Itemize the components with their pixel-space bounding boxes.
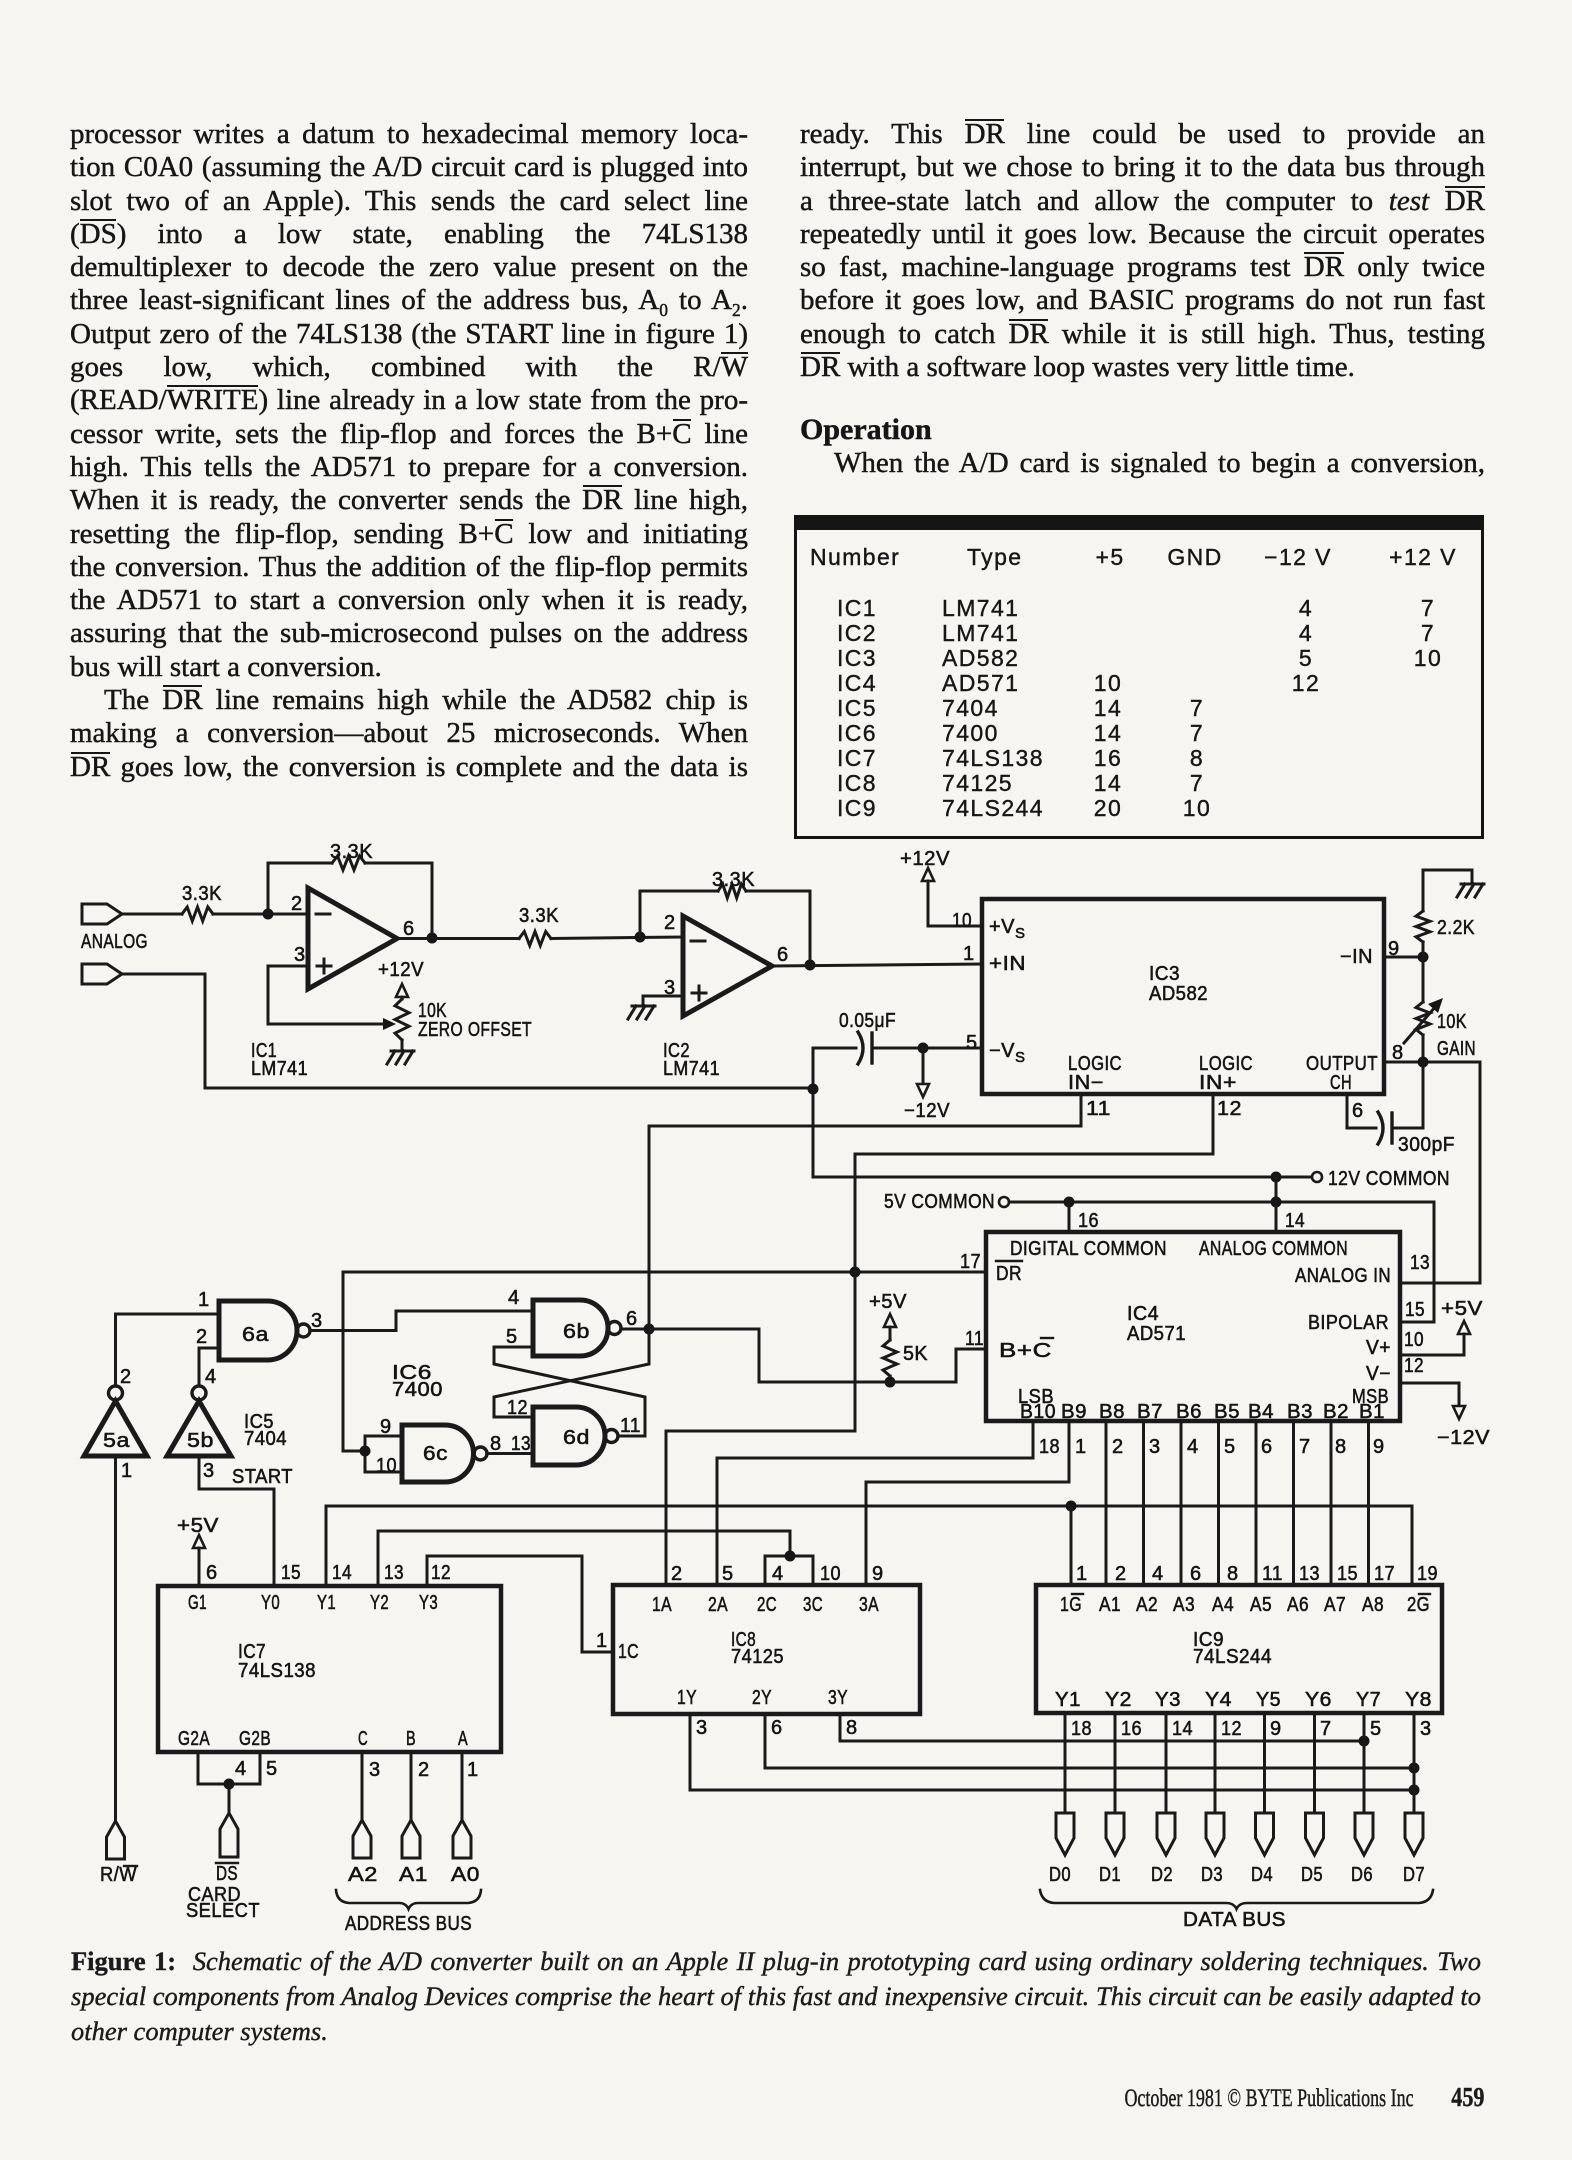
svg-text:A4: A4 xyxy=(1212,1594,1234,1616)
svg-text:Y2: Y2 xyxy=(1105,1689,1132,1711)
label ANALOG xyxy=(81,931,148,953)
connector A0 xyxy=(453,1820,471,1858)
wire ANALOG2 to common xyxy=(122,974,813,1088)
svg-text:2: 2 xyxy=(1112,1436,1124,1458)
svg-text:2.2K: 2.2K xyxy=(1437,917,1475,939)
svg-text:3: 3 xyxy=(369,1759,381,1781)
svg-text:10: 10 xyxy=(376,1455,397,1477)
svg-text:12: 12 xyxy=(1404,1355,1424,1377)
svg-text:+12V: +12V xyxy=(900,848,950,870)
svg-text:14: 14 xyxy=(1285,1210,1305,1232)
svg-text:16: 16 xyxy=(1078,1210,1099,1232)
label IC6 7400 xyxy=(392,1362,443,1401)
G2A G2B wires to DS xyxy=(198,1752,278,1813)
svg-text:B8: B8 xyxy=(1099,1401,1125,1423)
svg-text:1: 1 xyxy=(467,1759,479,1781)
svg-text:2: 2 xyxy=(291,893,303,915)
svg-text:12: 12 xyxy=(1217,1098,1242,1120)
svg-text:6a: 6a xyxy=(242,1324,269,1346)
svg-text:CH: CH xyxy=(1330,1072,1352,1094)
svg-text:AD571: AD571 xyxy=(1127,1323,1186,1345)
wire 5a out to 6a pin1 xyxy=(116,1289,220,1386)
svg-text:10K: 10K xyxy=(1437,1011,1467,1033)
svg-text:−12V: −12V xyxy=(904,1100,950,1122)
svg-text:3: 3 xyxy=(294,944,306,966)
svg-text:1A: 1A xyxy=(652,1594,672,1616)
svg-text:Y5: Y5 xyxy=(1256,1689,1281,1711)
svg-text:9: 9 xyxy=(1373,1436,1385,1458)
svg-text:300pF: 300pF xyxy=(1398,1134,1455,1156)
svg-text:9: 9 xyxy=(380,1416,392,1438)
svg-text:0.05μF: 0.05μF xyxy=(839,1010,896,1032)
svg-text:5: 5 xyxy=(1224,1436,1236,1458)
svg-text:6: 6 xyxy=(206,1562,218,1584)
svg-text:19: 19 xyxy=(1417,1563,1438,1585)
svg-text:8: 8 xyxy=(1227,1563,1239,1585)
terminal 5V COMMON xyxy=(884,1191,1009,1213)
svg-text:3Y: 3Y xyxy=(828,1687,848,1709)
svg-text:6c: 6c xyxy=(423,1443,448,1465)
wire Y2 to 74125 2C3C xyxy=(378,1531,790,1586)
svg-text:D3: D3 xyxy=(1201,1864,1223,1886)
svg-text:12V COMMON: 12V COMMON xyxy=(1328,1168,1450,1190)
svg-text:Y0: Y0 xyxy=(261,1592,280,1614)
svg-text:ANALOG: ANALOG xyxy=(81,931,148,953)
svg-text:6: 6 xyxy=(403,918,415,940)
op-amp IC2 LM741 xyxy=(663,912,789,1080)
wire C to A2 xyxy=(362,1752,381,1820)
power +12V (zero offset pot) xyxy=(378,959,424,999)
svg-text:DS: DS xyxy=(216,1863,238,1885)
inverter 5a (IC5) xyxy=(84,1366,147,1482)
svg-text:7: 7 xyxy=(1299,1436,1311,1458)
svg-text:1: 1 xyxy=(121,1460,133,1482)
svg-text:Y2: Y2 xyxy=(370,1592,389,1614)
nand 6c (IC6) xyxy=(402,1425,487,1482)
svg-text:5: 5 xyxy=(506,1326,518,1348)
wire 1G riser xyxy=(1070,1506,1073,1585)
wiper arrowhead into 10K pot xyxy=(383,1018,396,1030)
IC9 bottom pin numbers xyxy=(1071,1718,1432,1740)
svg-text:6: 6 xyxy=(626,1308,638,1330)
wire 2Y to data bus xyxy=(765,1714,1420,1774)
pin 17 DR wire to latch xyxy=(343,1251,986,1451)
svg-text:2: 2 xyxy=(418,1759,430,1781)
pin 8 OUTPUT wire junction xyxy=(1384,1042,1480,1068)
svg-text:3: 3 xyxy=(311,1310,323,1332)
wire R to IC2 pin2, junction xyxy=(551,932,683,943)
wire 12V COMMON riser xyxy=(808,1048,1312,1183)
svg-text:15: 15 xyxy=(1337,1563,1358,1585)
svg-text:3: 3 xyxy=(203,1460,215,1482)
wire feedback to IC2 output xyxy=(746,891,816,971)
svg-text:IN−: IN− xyxy=(1068,1072,1104,1094)
svg-text:B1: B1 xyxy=(1359,1401,1385,1423)
svg-text:6: 6 xyxy=(1352,1100,1364,1122)
svg-text:BIPOLAR: BIPOLAR xyxy=(1308,1312,1389,1334)
svg-text:B7: B7 xyxy=(1137,1401,1163,1423)
wire IC1 pin3 route xyxy=(268,966,384,1024)
ground (2.2K) xyxy=(1457,884,1484,897)
IC4 AD571 box xyxy=(986,1232,1400,1423)
svg-text:Y7: Y7 xyxy=(1356,1689,1381,1711)
svg-text:13: 13 xyxy=(1410,1252,1430,1274)
svg-text:G2A: G2A xyxy=(178,1728,210,1750)
DR net vertical to logic xyxy=(666,1154,855,1585)
svg-text:−VS: −VS xyxy=(989,1040,1026,1066)
svg-text:4: 4 xyxy=(772,1563,784,1585)
resistor 2.2K xyxy=(1416,911,1475,957)
potentiometer 10K GAIN xyxy=(1404,957,1476,1062)
svg-text:ANALOG IN: ANALOG IN xyxy=(1295,1265,1391,1287)
svg-text:A: A xyxy=(458,1728,468,1750)
latch cross wire 6b.out to 6d.12 xyxy=(494,1329,649,1419)
svg-text:AD582: AD582 xyxy=(1149,983,1208,1005)
svg-text:11: 11 xyxy=(965,1328,984,1350)
pin 13 ANALOG IN wire xyxy=(1400,1062,1480,1283)
IC7 74LS138 box xyxy=(158,1586,501,1752)
svg-text:Y6: Y6 xyxy=(1305,1689,1332,1711)
svg-text:1G: 1G xyxy=(1060,1594,1082,1616)
svg-text:2: 2 xyxy=(1115,1563,1127,1585)
Y output wires to D connectors xyxy=(1065,1713,1414,1813)
svg-text:A2: A2 xyxy=(348,1864,378,1886)
wire feedback riser IC1 xyxy=(268,863,332,914)
latch cross wire 6d.out to 6b.5 xyxy=(494,1326,645,1436)
IC8 74125 box xyxy=(613,1585,920,1714)
svg-text:GAIN: GAIN xyxy=(1437,1038,1476,1060)
wire 2.2K to ground xyxy=(1423,870,1472,911)
svg-text:ADDRESS BUS: ADDRESS BUS xyxy=(345,1913,472,1935)
svg-text:D5: D5 xyxy=(1301,1864,1323,1886)
svg-text:6: 6 xyxy=(1190,1563,1202,1585)
svg-text:2A: 2A xyxy=(708,1594,728,1616)
svg-text:6b: 6b xyxy=(563,1321,590,1343)
nand 6b (IC6) xyxy=(533,1300,621,1356)
svg-text:8: 8 xyxy=(1335,1436,1347,1458)
svg-text:11: 11 xyxy=(1086,1098,1111,1120)
svg-text:B3: B3 xyxy=(1287,1401,1313,1423)
capacitor 300pF xyxy=(1347,1062,1455,1156)
svg-text:R/W: R/W xyxy=(100,1864,137,1886)
op-amp IC1 LM741 xyxy=(251,888,415,1080)
svg-text:11: 11 xyxy=(1262,1563,1283,1585)
resistor 3.3K (feedback IC1) xyxy=(330,841,373,870)
svg-text:4: 4 xyxy=(1187,1436,1199,1458)
IC9 74LS244 box xyxy=(1036,1585,1442,1713)
svg-text:1: 1 xyxy=(596,1630,608,1652)
label R/W xyxy=(100,1864,137,1886)
svg-text:18: 18 xyxy=(1071,1718,1092,1740)
capacitor 0.05uF xyxy=(813,1010,982,1064)
svg-text:Y1: Y1 xyxy=(1055,1689,1081,1711)
svg-text:7: 7 xyxy=(1320,1718,1332,1740)
svg-text:14: 14 xyxy=(332,1562,352,1584)
svg-text:ZERO OFFSET: ZERO OFFSET xyxy=(418,1019,532,1041)
svg-text:1C: 1C xyxy=(618,1641,639,1663)
svg-text:IC4: IC4 xyxy=(1127,1303,1159,1325)
svg-text:17: 17 xyxy=(960,1251,981,1273)
power -12V (below cap) xyxy=(904,1048,950,1122)
wire pin16 riser xyxy=(1069,1202,1099,1232)
svg-text:2: 2 xyxy=(671,1563,683,1585)
svg-text:B9: B9 xyxy=(1061,1401,1087,1423)
pin 10 V+ wire to +5V xyxy=(1400,1298,1483,1355)
svg-text:3: 3 xyxy=(1420,1718,1432,1740)
wire pin14 riser xyxy=(1276,1177,1305,1232)
connector R/W xyxy=(107,1821,125,1859)
svg-text:4: 4 xyxy=(1152,1563,1164,1585)
brace DATA BUS xyxy=(1040,1890,1433,1931)
svg-text:4: 4 xyxy=(508,1287,520,1309)
svg-text:13: 13 xyxy=(511,1433,531,1455)
svg-text:Y4: Y4 xyxy=(1205,1689,1232,1711)
wire 5V COMMON line xyxy=(1009,1197,1434,1323)
wire 6c out to 6d pin13 xyxy=(487,1433,533,1455)
svg-text:3C: 3C xyxy=(803,1594,823,1616)
pin 15 Y0 number xyxy=(281,1562,301,1584)
svg-text:4: 4 xyxy=(235,1758,247,1780)
svg-text:G1: G1 xyxy=(188,1592,207,1614)
svg-text:8: 8 xyxy=(846,1717,858,1739)
svg-text:3.3K: 3.3K xyxy=(330,841,373,863)
svg-text:9: 9 xyxy=(1270,1718,1282,1740)
svg-text:DATA BUS: DATA BUS xyxy=(1183,1909,1286,1931)
data bit wires B8-B1 to 74LS244 xyxy=(1106,1421,1385,1585)
label DS CARD SELECT xyxy=(186,1863,260,1922)
svg-text:15: 15 xyxy=(281,1562,301,1584)
svg-text:2: 2 xyxy=(120,1366,132,1388)
svg-text:C: C xyxy=(358,1728,368,1750)
svg-text:−12V: −12V xyxy=(1437,1427,1490,1449)
svg-text:D0: D0 xyxy=(1049,1864,1071,1886)
svg-text:5K: 5K xyxy=(903,1343,928,1365)
wire feedback to IC1 output xyxy=(365,863,438,944)
svg-text:13: 13 xyxy=(384,1562,404,1584)
svg-text:A1: A1 xyxy=(399,1864,428,1886)
svg-text:3A: 3A xyxy=(859,1594,879,1616)
svg-text:1: 1 xyxy=(963,943,975,965)
svg-text:9: 9 xyxy=(872,1563,884,1585)
svg-text:2Y: 2Y xyxy=(752,1687,772,1709)
svg-text:A3: A3 xyxy=(1173,1594,1195,1616)
pin 11 LOGIC IN- wire xyxy=(649,1094,1111,1126)
wire 6b out junction xyxy=(621,1308,655,1335)
svg-text:3: 3 xyxy=(1149,1436,1161,1458)
svg-text:+12V: +12V xyxy=(378,959,424,981)
svg-text:3.3K: 3.3K xyxy=(712,869,755,891)
svg-text:B2: B2 xyxy=(1323,1401,1349,1423)
svg-text:5V COMMON: 5V COMMON xyxy=(884,1191,995,1213)
svg-text:+5V: +5V xyxy=(1441,1298,1483,1320)
svg-text:10: 10 xyxy=(1404,1329,1424,1351)
svg-text:Y3: Y3 xyxy=(419,1592,438,1614)
IC8 top pin numbers xyxy=(671,1563,884,1585)
svg-text:12: 12 xyxy=(431,1562,451,1584)
svg-text:1: 1 xyxy=(198,1289,210,1311)
svg-text:5b: 5b xyxy=(187,1430,214,1452)
svg-text:B+C: B+C xyxy=(999,1340,1052,1362)
svg-text:DR: DR xyxy=(996,1263,1022,1285)
resistor 3.3K (input R to IC1) xyxy=(182,883,222,921)
power +12V (IC3 pin10) xyxy=(900,848,982,932)
svg-text:D2: D2 xyxy=(1151,1864,1173,1886)
svg-text:DIGITAL COMMON: DIGITAL COMMON xyxy=(1010,1238,1167,1260)
svg-text:+5V: +5V xyxy=(177,1515,219,1537)
svg-text:5a: 5a xyxy=(103,1430,130,1452)
wire 3Y to data bus xyxy=(840,1714,1370,1747)
svg-text:2G: 2G xyxy=(1407,1594,1430,1616)
svg-text:74LS138: 74LS138 xyxy=(238,1660,316,1682)
svg-text:B: B xyxy=(406,1728,416,1750)
svg-text:START: START xyxy=(232,1466,293,1488)
svg-text:74125: 74125 xyxy=(731,1646,784,1668)
svg-text:3.3K: 3.3K xyxy=(519,905,559,927)
svg-text:8: 8 xyxy=(1392,1042,1404,1064)
svg-text:7400: 7400 xyxy=(392,1379,443,1401)
svg-text:V−: V− xyxy=(1366,1363,1391,1385)
svg-text:15: 15 xyxy=(1405,1299,1425,1321)
svg-text:IN+: IN+ xyxy=(1199,1072,1237,1094)
svg-text:5: 5 xyxy=(1370,1718,1382,1740)
svg-text:5: 5 xyxy=(966,1032,978,1054)
wire B to A1 xyxy=(411,1752,430,1820)
svg-text:A5: A5 xyxy=(1250,1594,1272,1616)
labels A2 A1 A0 xyxy=(348,1864,480,1886)
svg-text:6d: 6d xyxy=(563,1427,590,1449)
svg-text:Y1: Y1 xyxy=(317,1592,336,1614)
wire IC1 out xyxy=(397,937,519,940)
wire 6a out to 6b pin4 xyxy=(310,1287,533,1332)
svg-text:3: 3 xyxy=(696,1717,708,1739)
svg-text:−IN: −IN xyxy=(1340,946,1373,968)
pin 9 -IN wire xyxy=(1384,938,1429,963)
pin 1 B9 wire to 74125 3A xyxy=(866,1421,1087,1585)
svg-text:11: 11 xyxy=(620,1415,641,1437)
brace ADDRESS BUS xyxy=(336,1890,481,1935)
svg-text:14: 14 xyxy=(1172,1718,1193,1740)
wire 6b out to B+C xyxy=(649,1329,759,1382)
svg-text:5: 5 xyxy=(266,1758,278,1780)
ground (pot) xyxy=(387,1040,414,1064)
resistor 3.3K (IC1 to IC2) xyxy=(519,905,559,946)
nand 6d (IC6) xyxy=(533,1407,641,1465)
resistor 3.3K (feedback IC2) xyxy=(712,869,755,898)
svg-text:74LS244: 74LS244 xyxy=(1193,1646,1272,1668)
svg-text:A2: A2 xyxy=(1136,1594,1158,1616)
svg-text:IC3: IC3 xyxy=(1149,963,1180,985)
potentiometer 10K ZERO OFFSET xyxy=(395,999,532,1041)
pin 18 B10 wire to 74125 2A xyxy=(717,1421,1060,1585)
svg-text:A8: A8 xyxy=(1362,1594,1384,1616)
label IC5 7404 xyxy=(244,1411,287,1450)
IC9 top pin numbers xyxy=(1076,1563,1438,1585)
nand 6a (IC6) xyxy=(219,1301,310,1360)
D0-D7 connectors xyxy=(1056,1813,1423,1855)
power +5V with 5K pullup xyxy=(869,1291,928,1388)
inverter 5b (IC5) xyxy=(167,1366,231,1482)
svg-text:6: 6 xyxy=(777,944,789,966)
svg-text:B10: B10 xyxy=(1020,1401,1056,1423)
pin 11 B+C wire xyxy=(759,1328,986,1382)
wire IC2 out to IC3 pin1 xyxy=(772,943,982,966)
svg-text:7404: 7404 xyxy=(244,1428,287,1450)
svg-text:A7: A7 xyxy=(1324,1594,1346,1616)
svg-text:LM741: LM741 xyxy=(663,1058,720,1080)
wire 5b out to 6a pin2 xyxy=(196,1326,219,1386)
svg-text:2: 2 xyxy=(196,1326,208,1348)
svg-text:B4: B4 xyxy=(1248,1401,1274,1423)
wire 1Y to data bus xyxy=(690,1714,1420,1796)
wire Y3 to 74125 1C xyxy=(427,1556,613,1652)
wire feedback riser IC2 xyxy=(640,891,718,937)
svg-text:1: 1 xyxy=(1076,1563,1088,1585)
IC3 AD582 box xyxy=(982,899,1384,1094)
svg-text:2: 2 xyxy=(664,912,676,934)
power +5V (G1) xyxy=(177,1515,219,1586)
svg-text:+VS: +VS xyxy=(989,916,1026,942)
connector A2 xyxy=(353,1820,371,1858)
wire analog1 to R 3.3K xyxy=(122,913,182,916)
svg-text:8: 8 xyxy=(490,1433,502,1455)
labels D0-D7 xyxy=(1049,1864,1425,1886)
terminal 12V COMMON xyxy=(1312,1168,1450,1190)
connector A1 xyxy=(402,1820,420,1858)
svg-text:A6: A6 xyxy=(1287,1594,1309,1616)
connector DS xyxy=(220,1813,238,1857)
svg-text:17: 17 xyxy=(1374,1563,1395,1585)
svg-text:6: 6 xyxy=(771,1717,783,1739)
svg-text:V+: V+ xyxy=(1366,1337,1391,1359)
svg-text:4: 4 xyxy=(205,1366,217,1388)
svg-text:9: 9 xyxy=(1388,938,1400,960)
wire R to IC1 pin2, junction xyxy=(213,909,308,920)
svg-text:12: 12 xyxy=(1221,1718,1242,1740)
6c input bracket xyxy=(360,1416,403,1477)
wire 5b in START net xyxy=(199,1456,293,1586)
svg-text:D6: D6 xyxy=(1351,1864,1373,1886)
pin 15 BIPOLAR number xyxy=(1405,1299,1425,1321)
svg-text:ANALOG COMMON: ANALOG COMMON xyxy=(1199,1238,1348,1260)
svg-text:2C: 2C xyxy=(757,1594,777,1616)
svg-text:1: 1 xyxy=(1075,1436,1087,1458)
svg-text:+5V: +5V xyxy=(869,1291,907,1313)
svg-text:A0: A0 xyxy=(451,1864,480,1886)
svg-text:10: 10 xyxy=(952,910,972,932)
svg-text:18: 18 xyxy=(1039,1436,1060,1458)
svg-text:1Y: 1Y xyxy=(677,1687,697,1709)
svg-text:13: 13 xyxy=(1299,1563,1320,1585)
svg-text:D4: D4 xyxy=(1251,1864,1273,1886)
wire A to A0 xyxy=(462,1752,479,1820)
wire LOGIC IN- net riser xyxy=(648,1126,651,1329)
pin 12 V- wire to -12V xyxy=(1400,1355,1490,1449)
2C 3C bracket xyxy=(765,1551,813,1586)
svg-text:+IN: +IN xyxy=(989,953,1026,975)
svg-text:Y3: Y3 xyxy=(1155,1689,1181,1711)
svg-text:16: 16 xyxy=(1121,1718,1142,1740)
svg-text:6: 6 xyxy=(1261,1436,1273,1458)
connector ANALOG input 2 xyxy=(82,964,122,984)
wire IC2 pin3 to ground xyxy=(643,995,683,998)
svg-text:5: 5 xyxy=(722,1563,734,1585)
connector ANALOG input 1 xyxy=(82,904,122,924)
svg-text:D1: D1 xyxy=(1099,1864,1121,1886)
wire Y1 to 74LS244 enables xyxy=(326,1501,1412,1587)
svg-text:D7: D7 xyxy=(1403,1864,1425,1886)
svg-text:SELECT: SELECT xyxy=(186,1900,260,1922)
svg-text:10: 10 xyxy=(820,1563,841,1585)
